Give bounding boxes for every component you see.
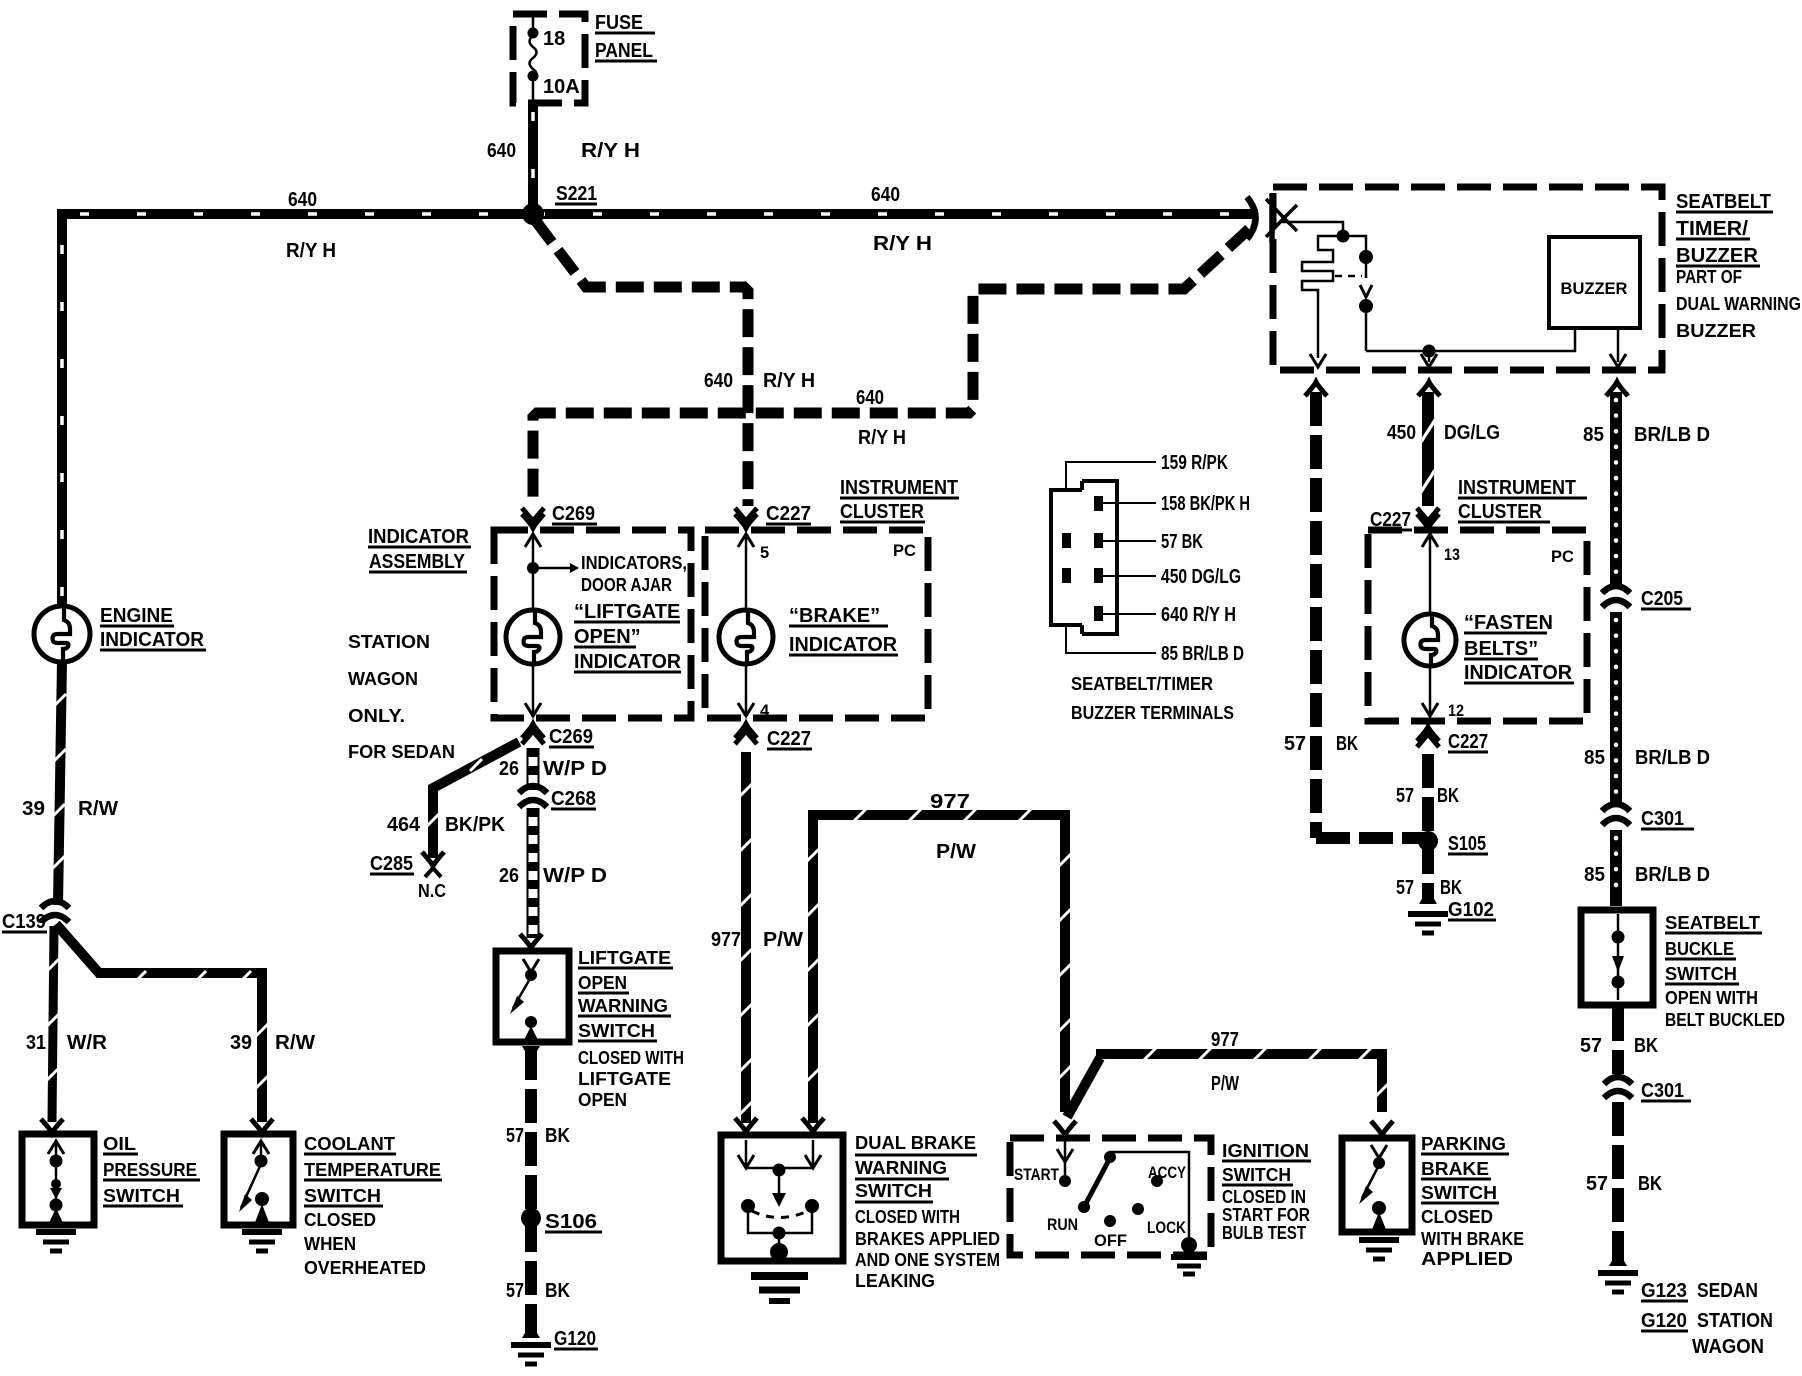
wire 31 W/R from C139 to oil pressure switch: [52, 926, 54, 1122]
coolant temperature switch internals: [251, 1119, 273, 1133]
svg-text:BK/PK: BK/PK: [445, 814, 506, 836]
svg-text:CLOSED IN: CLOSED IN: [1222, 1187, 1306, 1207]
svg-text:BULB TEST: BULB TEST: [1222, 1223, 1306, 1243]
dual brake warning switch ground: [751, 1276, 808, 1301]
svg-text:10A: 10A: [543, 76, 580, 98]
wire 977 P/W branch from ignition to parking brake switch: [1067, 1054, 1382, 1117]
svg-text:LOCK: LOCK: [1147, 1219, 1186, 1237]
svg-text:85: 85: [1584, 864, 1605, 886]
svg-text:PC: PC: [893, 542, 916, 560]
svg-text:S106: S106: [545, 1211, 597, 1233]
svg-text:39: 39: [230, 1032, 252, 1054]
svg-text:C268: C268: [551, 788, 596, 810]
svg-text:BELTS”: BELTS”: [1464, 638, 1538, 660]
svg-text:P/W: P/W: [936, 841, 976, 863]
wire 640 R/Y H from fuse panel down to S221: [528, 100, 538, 214]
svg-text:BK: BK: [545, 1280, 570, 1302]
svg-text:SWITCH: SWITCH: [578, 1021, 655, 1041]
svg-text:BK: BK: [1638, 1173, 1662, 1195]
svg-text:R/Y H: R/Y H: [581, 140, 640, 162]
svg-text:57 BK: 57 BK: [1161, 531, 1203, 553]
C285 connector (N.C): [422, 852, 444, 866]
svg-text:WHEN: WHEN: [304, 1234, 356, 1254]
svg-text:“BRAKE”: “BRAKE”: [789, 605, 880, 627]
svg-text:464: 464: [387, 814, 421, 836]
brake indicator lamp pin 5 to pin 4: [738, 534, 754, 547]
svg-text:OIL: OIL: [103, 1134, 136, 1154]
C301 connector: [1602, 804, 1630, 825]
wire 85 BR/LB D dotted C205 to C301: [1610, 612, 1622, 803]
instrument cluster dashed box (fasten belts): [1368, 530, 1587, 721]
svg-text:OPEN: OPEN: [578, 973, 627, 993]
svg-text:C269: C269: [552, 503, 595, 525]
svg-text:BR/LB D: BR/LB D: [1634, 424, 1710, 446]
svg-text:WARNING: WARNING: [578, 996, 668, 1016]
svg-text:57: 57: [1580, 1035, 1602, 1057]
svg-text:G120: G120: [554, 1328, 596, 1350]
svg-text:12: 12: [1448, 702, 1464, 720]
svg-text:158 BK/PK H: 158 BK/PK H: [1161, 493, 1250, 515]
dual brake warning switch internals: [735, 1118, 757, 1132]
svg-text:640: 640: [704, 370, 733, 392]
svg-text:85 BR/LB D: 85 BR/LB D: [1161, 643, 1244, 665]
coolant temperature switch box: [224, 1134, 293, 1225]
svg-text:TIMER/: TIMER/: [1676, 218, 1748, 240]
svg-text:5: 5: [760, 544, 769, 562]
G102 ground: [1419, 888, 1437, 904]
parking brake switch internals: [1371, 1121, 1393, 1135]
liftgate open indicator lamp and feed: [525, 534, 541, 547]
svg-text:85: 85: [1584, 747, 1605, 769]
wire 39 R/W from C139 to coolant temperature switch: [56, 924, 262, 1122]
svg-text:SWITCH: SWITCH: [304, 1186, 381, 1206]
wire 85 BR/LB D dotted from seatbelt timer to C205: [1610, 392, 1622, 586]
svg-text:ENGINE: ENGINE: [100, 605, 173, 627]
seatbelt buckle switch internals: [1617, 914, 1620, 1000]
svg-text:57: 57: [506, 1280, 524, 1302]
seatbelt buckle switch box: [1581, 910, 1653, 1005]
svg-text:C227: C227: [766, 503, 811, 525]
svg-text:FOR SEDAN: FOR SEDAN: [348, 742, 455, 762]
svg-text:57: 57: [1396, 877, 1414, 899]
svg-text:STATION: STATION: [348, 632, 430, 652]
oil pressure switch box: [22, 1134, 94, 1225]
svg-text:G120: G120: [1641, 1310, 1687, 1332]
oil pressure switch internals: [41, 1119, 63, 1133]
svg-text:PART OF: PART OF: [1676, 267, 1742, 287]
svg-text:C301: C301: [1641, 808, 1684, 830]
svg-text:CLOSED: CLOSED: [304, 1210, 376, 1230]
svg-text:ONLY.: ONLY.: [348, 706, 405, 726]
svg-text:640: 640: [871, 184, 900, 206]
fuse F (18 / 10A): [532, 16, 535, 101]
seatbelt timer relay internals: [1280, 222, 1343, 233]
svg-text:P/W: P/W: [763, 929, 803, 951]
node S221 splice: [522, 203, 544, 225]
svg-text:SWITCH: SWITCH: [855, 1181, 932, 1201]
wire 57 BK from C227 to S105 to G102: [1422, 754, 1434, 898]
fasten belts lamp pin 13 to pin 12: [1422, 534, 1438, 547]
svg-text:57: 57: [506, 1125, 524, 1147]
svg-text:CLOSED: CLOSED: [1421, 1207, 1493, 1227]
svg-text:BUCKLE: BUCKLE: [1665, 939, 1734, 959]
svg-text:G102: G102: [1448, 899, 1494, 921]
svg-text:PC: PC: [1551, 548, 1574, 566]
svg-text:159 R/PK: 159 R/PK: [1161, 452, 1228, 474]
svg-text:SWITCH: SWITCH: [1665, 964, 1737, 984]
svg-text:BELT BUCKLED: BELT BUCKLED: [1665, 1010, 1785, 1030]
svg-text:640: 640: [288, 189, 317, 211]
C269 connector top: [522, 514, 544, 528]
svg-text:APPLIED: APPLIED: [1421, 1249, 1513, 1269]
C227 connector bottom: [735, 724, 757, 738]
svg-text:OPEN”: OPEN”: [574, 626, 641, 648]
leader lines to terminal labels: [1066, 462, 1156, 653]
svg-text:18: 18: [543, 28, 565, 50]
svg-text:C227: C227: [1370, 509, 1411, 531]
svg-text:INDICATOR: INDICATOR: [1464, 662, 1573, 684]
svg-text:ASSEMBLY: ASSEMBLY: [369, 551, 466, 573]
wire 464 BK/PK from C269 to C285: [433, 742, 519, 858]
svg-text:S105: S105: [1448, 833, 1486, 855]
svg-text:CLUSTER: CLUSTER: [840, 501, 924, 523]
svg-text:C269: C269: [549, 726, 593, 748]
svg-text:SWITCH: SWITCH: [1421, 1183, 1497, 1203]
wire 977 P/W from C227 to dual brake warning switch: [741, 752, 751, 1123]
svg-text:R/Y H: R/Y H: [286, 240, 336, 262]
svg-text:R/W: R/W: [78, 798, 118, 820]
wire 57 BK from seatbelt timer to S105: [1316, 392, 1424, 838]
svg-text:INDICATORS,: INDICATORS,: [581, 553, 687, 573]
svg-text:BUZZER: BUZZER: [1561, 280, 1628, 298]
G120 ground: [522, 1322, 540, 1338]
coolant temperature switch ground: [242, 1232, 282, 1251]
seatbelt timer/buzzer dashed box: [1273, 187, 1662, 370]
svg-text:N.C: N.C: [418, 881, 446, 901]
svg-text:LIFTGATE: LIFTGATE: [578, 948, 671, 968]
wire 640 R/Y H dashed branch from S221 to C269 feed via lower route: [535, 220, 748, 506]
svg-text:640 R/Y H: 640 R/Y H: [1161, 604, 1236, 626]
svg-text:39: 39: [22, 798, 45, 820]
svg-text:13: 13: [1444, 546, 1460, 564]
svg-text:BRAKE: BRAKE: [1421, 1159, 1489, 1179]
svg-text:BRAKES APPLIED: BRAKES APPLIED: [855, 1229, 1000, 1249]
svg-text:BK: BK: [1440, 877, 1462, 899]
svg-text:S221: S221: [556, 183, 597, 205]
svg-text:OVERHEATED: OVERHEATED: [304, 1258, 426, 1278]
C301 connector lower: [1604, 1077, 1632, 1098]
svg-text:PANEL: PANEL: [595, 40, 653, 62]
svg-text:BUZZER: BUZZER: [1676, 245, 1759, 267]
svg-text:R/Y H: R/Y H: [763, 370, 815, 392]
svg-text:85: 85: [1583, 424, 1604, 446]
wire 85 BR/LB D dotted C301 to seatbelt buckle switch: [1610, 830, 1622, 906]
svg-text:FUSE: FUSE: [595, 12, 643, 34]
svg-text:BK: BK: [1634, 1035, 1658, 1057]
svg-text:INDICATOR: INDICATOR: [574, 651, 682, 673]
svg-text:R/Y H: R/Y H: [873, 233, 932, 255]
svg-text:R/W: R/W: [275, 1032, 315, 1054]
C269 connector bottom: [522, 724, 544, 738]
svg-text:DUAL BRAKE: DUAL BRAKE: [855, 1133, 976, 1153]
seatbelt/timer buzzer terminals connector: [1051, 481, 1117, 634]
timer heater element: [1302, 236, 1343, 358]
ignition switch internals: [1054, 1121, 1076, 1135]
fuse panel box: [513, 14, 585, 103]
wire 977 P/W from dual brake switch up and over to ignition switch: [808, 815, 1065, 1123]
svg-text:LIFTGATE: LIFTGATE: [578, 1069, 671, 1089]
svg-text:PRESSURE: PRESSURE: [103, 1160, 197, 1180]
svg-text:57: 57: [1396, 785, 1414, 807]
indicator assembly dashed box: [494, 530, 691, 718]
svg-text:START: START: [1014, 1166, 1059, 1184]
svg-text:INDICATOR: INDICATOR: [368, 526, 470, 548]
svg-text:TEMPERATURE: TEMPERATURE: [304, 1160, 441, 1180]
wire 57 BK from seatbelt buckle switch to C301 to G123: [1612, 1007, 1624, 1074]
svg-text:START FOR: START FOR: [1222, 1205, 1310, 1225]
svg-text:AND ONE SYSTEM: AND ONE SYSTEM: [855, 1250, 1000, 1270]
svg-text:C285: C285: [370, 853, 413, 875]
ignition switch dashed box: [1010, 1138, 1211, 1255]
svg-text:977: 977: [930, 791, 970, 813]
exit connectors below seatbelt timer box: [1305, 382, 1327, 396]
svg-text:31: 31: [26, 1032, 46, 1054]
svg-text:450 DG/LG: 450 DG/LG: [1161, 566, 1241, 588]
svg-text:OFF: OFF: [1094, 1232, 1127, 1250]
svg-text:SEATBELT: SEATBELT: [1665, 913, 1760, 933]
svg-text:INDICATOR: INDICATOR: [100, 629, 205, 651]
svg-text:SEATBELT/TIMER: SEATBELT/TIMER: [1071, 674, 1213, 694]
svg-text:“LIFTGATE: “LIFTGATE: [574, 601, 680, 623]
liftgate open warning switch box: [496, 951, 569, 1042]
svg-text:BR/LB D: BR/LB D: [1635, 747, 1710, 769]
svg-text:640: 640: [856, 387, 884, 409]
svg-text:INSTRUMENT: INSTRUMENT: [1458, 477, 1576, 499]
svg-text:26: 26: [499, 758, 519, 780]
C139 connector: [41, 901, 69, 922]
node S106 splice: [521, 1208, 541, 1228]
svg-text:RUN: RUN: [1047, 1216, 1078, 1234]
svg-text:WAGON: WAGON: [1692, 1336, 1764, 1358]
svg-text:977: 977: [711, 929, 741, 951]
parking brake switch ground: [1359, 1240, 1399, 1259]
G123 ground: [1609, 1250, 1627, 1266]
svg-text:CLOSED WITH: CLOSED WITH: [855, 1207, 960, 1227]
ignition switch ground: [1171, 1257, 1207, 1274]
svg-text:C301: C301: [1641, 1080, 1684, 1102]
svg-text:INDICATOR: INDICATOR: [789, 634, 898, 656]
buzzer internal wiring to exits: [1366, 330, 1618, 362]
svg-text:W/P D: W/P D: [543, 865, 607, 887]
timer switch contact: [1343, 236, 1366, 351]
svg-text:CLUSTER: CLUSTER: [1458, 501, 1542, 523]
svg-text:OPEN: OPEN: [578, 1090, 627, 1110]
svg-text:INSTRUMENT: INSTRUMENT: [840, 477, 958, 499]
wire 26 W/P D checkered C269 to C268: [527, 748, 539, 790]
svg-text:57: 57: [1284, 733, 1306, 755]
svg-text:BUZZER: BUZZER: [1676, 321, 1756, 341]
svg-text:BK: BK: [1437, 785, 1459, 807]
liftgate open warning switch internals: [520, 934, 542, 948]
engine indicator lamp: [34, 606, 90, 662]
C205 connector: [1602, 586, 1630, 607]
instrument cluster dashed box (brake indicator): [705, 530, 928, 718]
svg-text:640: 640: [487, 140, 516, 162]
svg-text:WITH BRAKE: WITH BRAKE: [1421, 1229, 1524, 1249]
wire 57 BK liftgate switch to G120: [525, 1046, 537, 1340]
wire 39 R/W engine indicator to C139: [58, 661, 62, 905]
connector into seatbelt timer (main wire end): [1247, 197, 1256, 239]
wire 450 DG/LG from seatbelt timer to C227: [1422, 392, 1434, 506]
svg-text:G123: G123: [1641, 1280, 1687, 1302]
svg-text:LEAKING: LEAKING: [855, 1271, 935, 1291]
wire 26 W/P D checkered C268 to liftgate switch: [527, 808, 539, 938]
svg-text:OPEN WITH: OPEN WITH: [1665, 988, 1758, 1008]
svg-text:BUZZER TERMINALS: BUZZER TERMINALS: [1071, 703, 1234, 723]
dual brake warning switch box: [721, 1135, 843, 1261]
C227 connector (450 wire): [1417, 514, 1439, 528]
svg-text:WAGON: WAGON: [348, 669, 418, 689]
svg-text:CLOSED WITH: CLOSED WITH: [578, 1048, 684, 1068]
svg-text:57: 57: [1586, 1173, 1608, 1195]
svg-text:26: 26: [499, 865, 519, 887]
oil pressure switch ground: [36, 1232, 76, 1251]
C268 connector: [519, 786, 547, 807]
svg-text:PARKING: PARKING: [1421, 1134, 1506, 1154]
svg-text:C139: C139: [2, 911, 46, 933]
svg-text:DOOR AJAR: DOOR AJAR: [581, 575, 672, 595]
parking brake switch box: [1342, 1138, 1412, 1232]
svg-text:COOLANT: COOLANT: [304, 1134, 395, 1154]
svg-text:4: 4: [760, 702, 770, 720]
svg-text:ACCY: ACCY: [1148, 1164, 1186, 1182]
svg-text:W/P D: W/P D: [543, 758, 607, 780]
C227 connector bottom right: [1417, 727, 1439, 741]
node S105 splice: [1418, 831, 1438, 851]
wire 640 R/Y H dashed branch from seatbelt timer connector to C269/C227: [533, 229, 1249, 506]
svg-text:IGNITION: IGNITION: [1222, 1141, 1309, 1161]
svg-text:DG/LG: DG/LG: [1444, 422, 1500, 444]
svg-text:C227: C227: [767, 728, 811, 750]
buzzer box: [1549, 237, 1640, 328]
svg-text:SEDAN: SEDAN: [1697, 1280, 1758, 1302]
svg-text:BK: BK: [1336, 733, 1358, 755]
svg-text:SWITCH: SWITCH: [1222, 1165, 1291, 1185]
svg-text:W/R: W/R: [67, 1032, 108, 1054]
svg-text:C227: C227: [1448, 731, 1488, 753]
svg-text:450: 450: [1387, 422, 1416, 444]
svg-text:C205: C205: [1641, 588, 1683, 610]
wire 640 R/Y H main bus: left corner down to engine indicator, and across top: [62, 214, 1258, 607]
svg-text:BK: BK: [545, 1125, 570, 1147]
svg-text:SWITCH: SWITCH: [103, 1186, 180, 1206]
svg-text:DUAL WARNING: DUAL WARNING: [1676, 294, 1801, 314]
svg-text:977: 977: [1211, 1029, 1239, 1051]
svg-text:“FASTEN: “FASTEN: [1464, 612, 1553, 634]
svg-text:WARNING: WARNING: [855, 1158, 947, 1178]
svg-text:BR/LB D: BR/LB D: [1635, 864, 1710, 886]
svg-text:SEATBELT: SEATBELT: [1676, 191, 1771, 213]
svg-text:P/W: P/W: [1211, 1073, 1239, 1095]
svg-text:STATION: STATION: [1697, 1310, 1773, 1332]
svg-text:R/Y H: R/Y H: [858, 427, 906, 449]
C227 connector top: [735, 514, 757, 528]
